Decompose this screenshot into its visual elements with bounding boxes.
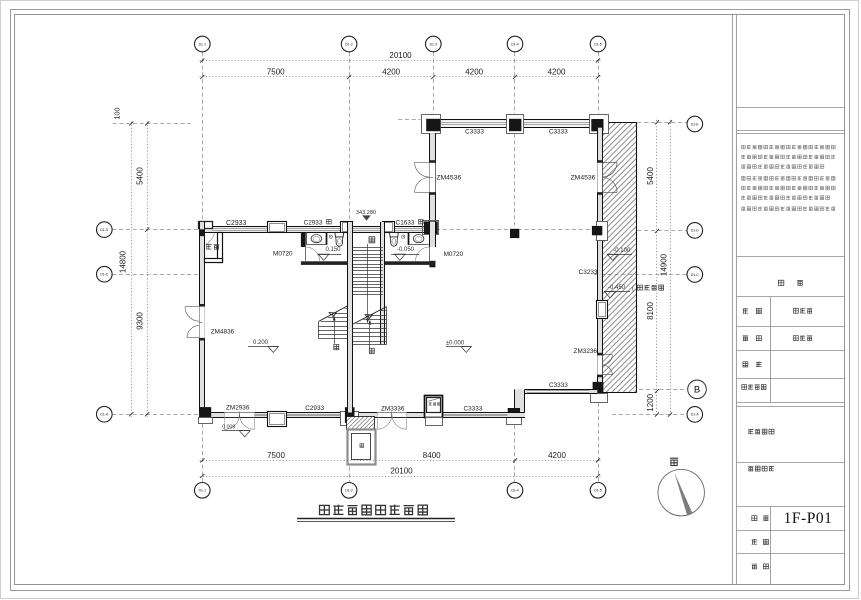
left wall right wing [429, 133, 435, 222]
stair break line right [352, 307, 386, 325]
title block row lines [737, 108, 846, 585]
svg-text:7500: 7500 [267, 68, 285, 77]
stair label shang left [334, 344, 339, 349]
column interior at D1-4 D [510, 229, 519, 238]
title block label hui-qian [778, 280, 803, 285]
column bottom central wall [341, 407, 359, 425]
elevation mark -0.100 [607, 248, 632, 260]
svg-text:9300: 9300 [136, 312, 145, 330]
svg-text:D1-5: D1-5 [594, 489, 601, 493]
column right wall bottom corner [591, 382, 608, 403]
grid line A horizontal left [112, 414, 199, 416]
grid line D1-4 vertical interior [514, 134, 516, 226]
door ZM2936 swing [225, 412, 255, 430]
water meter well lower trim [426, 418, 443, 426]
grid line D1-1 vertical bottom [202, 424, 204, 483]
grid line D1-2 vertical top [349, 52, 351, 221]
svg-text:14800: 14800 [119, 250, 128, 273]
window pier block 2 [340, 221, 353, 234]
stair upper flight treads [352, 248, 383, 295]
svg-text:D1-1: D1-1 [199, 489, 206, 493]
svg-text:0.150: 0.150 [325, 247, 341, 253]
svg-text:C1633: C1633 [396, 219, 415, 226]
window label C1633jia [396, 219, 424, 226]
stair top elevation 343.280 [356, 210, 376, 221]
figure title lou-yi-ceng-yuan-shi-jian-zhu-tu [297, 505, 455, 522]
window label C3333 right [549, 129, 568, 136]
right bathroom bottom wall [385, 261, 435, 265]
door label ZM2936 [226, 404, 250, 411]
window pier block bottom C2933 [267, 411, 287, 427]
svg-text:ZM2936: ZM2936 [226, 404, 250, 411]
grid line D1-5 vertical bottom [598, 403, 600, 483]
svg-text:4200: 4200 [548, 451, 566, 460]
svg-text:-0.100: -0.100 [613, 248, 631, 254]
column D1-4 top [507, 115, 524, 134]
corner column bottom-left [199, 407, 213, 423]
svg-text:ZM3336: ZM3336 [381, 406, 405, 413]
title block disclaimer text [741, 145, 835, 211]
elevation mark 0.200 [248, 340, 279, 353]
left bathroom door M0720 [306, 247, 320, 261]
window label C2933 top [226, 220, 246, 227]
grid line D1-2 vertical bottom [349, 426, 351, 483]
left bathroom toilet [335, 233, 344, 247]
fume room walls [200, 229, 223, 262]
axis bubble D1-A right [687, 407, 703, 423]
axis bubble D1-C right [687, 267, 703, 283]
svg-text:8100: 8100 [646, 302, 655, 320]
corner block at D1-3 base [423, 221, 439, 235]
right dimension chain 14900 [659, 120, 672, 417]
left bathroom floor drain [329, 235, 332, 238]
fume room label you-yan [206, 244, 219, 249]
svg-text:1200: 1200 [646, 393, 655, 411]
axis bubble D1-A left [97, 406, 113, 422]
bottom wall band left wing [199, 413, 525, 418]
door threshold mark 0.009 [222, 425, 250, 437]
axis bubble D1-5 top [590, 36, 606, 52]
stair label xia [369, 237, 375, 243]
svg-text:1F-P01: 1F-P01 [784, 510, 833, 527]
svg-text:C3333: C3333 [549, 382, 568, 389]
svg-text:100: 100 [113, 108, 122, 120]
svg-text:14900: 14900 [659, 253, 668, 276]
svg-text:4200: 4200 [548, 68, 566, 77]
stair left lower flight treads [319, 305, 348, 339]
svg-text:D1-4: D1-4 [511, 42, 518, 46]
compass label bei [670, 458, 678, 465]
left bathroom sink [307, 232, 327, 245]
window pier block 1 [267, 221, 287, 233]
grid line D1-3 vertical top [433, 52, 435, 114]
title block ri-qi [752, 564, 769, 569]
title block row hui-tu [743, 335, 813, 340]
bottom overall dimension 20100 [200, 466, 601, 478]
left wall left wing [199, 222, 205, 417]
door label M0720 right [444, 251, 464, 258]
window label C2933 bottom [305, 405, 324, 412]
right dimension chain 5400-8100-1200 [646, 120, 659, 417]
hatched party wall right [602, 122, 636, 392]
window label C3333 bottom-left wing [463, 406, 482, 413]
door label ZM3336 [381, 406, 405, 413]
svg-text:C3233: C3233 [579, 269, 598, 276]
column right wall at D [592, 222, 608, 241]
title block row jia-fang-shen-ding [742, 384, 766, 389]
compass north arrow [658, 469, 704, 515]
svg-text:C2933: C2933 [304, 219, 323, 226]
left bathroom left wall [301, 232, 306, 247]
axis bubble D1-4 top [507, 36, 523, 52]
svg-text:ZM3236: ZM3236 [574, 348, 598, 355]
door label ZM3236 [574, 348, 598, 355]
chimney hatch [334, 417, 397, 430]
axis bubble D1-3 top [426, 36, 442, 52]
svg-text:D1-E: D1-E [691, 122, 699, 126]
svg-text:D1-4: D1-4 [511, 489, 518, 493]
svg-text:4200: 4200 [382, 68, 400, 77]
svg-text:ZM4536: ZM4536 [436, 175, 461, 182]
window C3233 block [596, 300, 608, 319]
svg-text:-0.050: -0.050 [397, 247, 415, 253]
chimney body [347, 430, 375, 465]
axis bubble D1-D left [97, 222, 113, 238]
grid line E horizontal right [637, 122, 687, 124]
door ZM4536 left swing [415, 162, 434, 192]
svg-text:0.009: 0.009 [222, 425, 235, 431]
elevation mark 0.150 [318, 247, 342, 260]
svg-text:M0720: M0720 [273, 251, 293, 258]
right bathroom sink [408, 232, 428, 245]
svg-text:M0720: M0720 [444, 251, 464, 258]
bottom wall right wing [525, 389, 597, 393]
column step corner [507, 408, 522, 425]
svg-text:343.280: 343.280 [356, 210, 376, 216]
column D1-5 top [590, 115, 609, 134]
title block row jiao-he [743, 362, 762, 367]
grid line D1-4 vertical bottom [514, 425, 516, 483]
svg-text:D1-A: D1-A [691, 413, 699, 417]
top wall band left wing [199, 226, 437, 232]
svg-text:-0.450: -0.450 [608, 285, 626, 291]
axis bubble D1-1 top [195, 36, 211, 52]
svg-text:D1-C: D1-C [691, 273, 699, 277]
title block bi-li [752, 539, 769, 544]
column D1-3 top [422, 115, 441, 134]
svg-text:C2933: C2933 [305, 405, 324, 412]
title block tu-hao [752, 516, 769, 521]
grid line E horizontal left stub [113, 120, 421, 124]
left bathroom bottom wall [301, 261, 348, 265]
grid line B horizontal right [639, 389, 687, 391]
title block sheet number 1F-P01 [784, 510, 833, 527]
bottom chain dimensions [200, 451, 601, 463]
door label M0720 left [273, 251, 293, 258]
svg-text:D1-1: D1-1 [199, 42, 206, 46]
door ZM4836 swing [185, 307, 203, 338]
elevation mark -0.450 [604, 285, 664, 298]
svg-text:0.200: 0.200 [253, 340, 269, 346]
stair label shang right [369, 348, 374, 353]
grid line D horizontal right [637, 230, 687, 232]
window label C3233 [579, 269, 598, 276]
svg-text:D1-D: D1-D [100, 228, 108, 232]
svg-text:D1-A: D1-A [100, 413, 108, 417]
fume room flue arc [206, 233, 215, 245]
svg-text:5400: 5400 [136, 167, 145, 185]
right wall right wing [597, 128, 602, 390]
top wall band right wing [421, 119, 602, 127]
svg-text:C3333: C3333 [463, 406, 482, 413]
window label C3333 left [465, 129, 484, 136]
door ZM3236 swing [602, 355, 612, 376]
window label C3333 bottom [549, 382, 568, 389]
grid line D horizontal interior [436, 229, 592, 231]
stair shaft right wall [380, 222, 385, 345]
axis bubble D1-2 bottom [341, 483, 357, 499]
elevation mark +-0.000 [446, 340, 472, 352]
door label ZM4536 right [571, 175, 596, 182]
window pier block 3 [382, 221, 395, 234]
svg-text:5400: 5400 [646, 167, 655, 185]
right bathroom door M0720 [416, 247, 430, 261]
elevation mark -0.050 [391, 247, 420, 260]
axis bubble B right [688, 380, 707, 399]
axis bubble D1-1 bottom [195, 483, 211, 499]
svg-text:20100: 20100 [390, 466, 413, 475]
svg-text:ZM4836: ZM4836 [211, 328, 235, 335]
title block row she-ji [743, 308, 813, 313]
door label ZM4836 [211, 328, 235, 335]
title block tu-bie-xiang-mu [748, 466, 774, 471]
svg-text:7500: 7500 [267, 451, 285, 460]
svg-text:C3333: C3333 [465, 129, 484, 136]
title block gong-cheng-di-zhi [748, 429, 774, 434]
corner block top-left [199, 222, 213, 229]
right bathroom floor drain [402, 235, 405, 238]
title block column borders [733, 15, 737, 585]
stair right lower flight treads [352, 307, 386, 345]
top chain dimensions [200, 68, 601, 80]
svg-text:D1-2: D1-2 [345, 42, 352, 46]
svg-text:±0.000: ±0.000 [446, 340, 465, 346]
step wall [515, 389, 526, 412]
grid line A horizontal right [612, 414, 687, 416]
axis bubble D1-E right [687, 116, 703, 132]
stair down arrow [366, 244, 369, 324]
axis bubble D1-2 top [341, 36, 357, 52]
grid line D1-1 vertical top [202, 52, 204, 222]
stair up arrow left [333, 316, 336, 345]
svg-text:4200: 4200 [465, 68, 483, 77]
right bathroom right wall [429, 222, 435, 267]
right bathroom toilet [390, 233, 399, 247]
stair break line left [318, 306, 347, 322]
grid line D1-4 vertical top [514, 52, 516, 114]
svg-text:C2933: C2933 [226, 220, 246, 227]
svg-text:B: B [694, 385, 700, 396]
svg-text:D1-C: D1-C [100, 273, 108, 277]
grid line D horizontal left [112, 229, 199, 231]
stair up arrow right [369, 320, 372, 350]
svg-text:8400: 8400 [423, 451, 441, 460]
svg-text:20100: 20100 [389, 51, 412, 60]
grid line D1-5 vertical top [598, 52, 600, 114]
svg-text:C3333: C3333 [549, 129, 568, 136]
water meter well box [425, 396, 443, 418]
svg-text:D1-D: D1-D [691, 229, 699, 233]
axis bubble D1-C left [97, 266, 113, 282]
left dimension chain 100-5400-9300 [113, 108, 150, 417]
door label ZM4536 left [436, 175, 461, 182]
door ZM3336 swing [377, 412, 406, 430]
axis bubble D1-5 bottom [590, 483, 606, 499]
svg-text:D1-3: D1-3 [430, 42, 437, 46]
grid line C horizontal right [594, 274, 687, 276]
axis bubble D1-4 bottom [507, 483, 523, 499]
axis bubble D1-D right [687, 223, 703, 239]
grid line C horizontal left [112, 274, 199, 276]
window label C2933jia [304, 219, 332, 226]
door ZM4536 right swing [602, 162, 617, 192]
svg-text:ZM4536: ZM4536 [571, 175, 596, 182]
top overall dimension 20100 [200, 51, 601, 62]
svg-text:D1-5: D1-5 [594, 42, 601, 46]
svg-text:D1-2: D1-2 [345, 489, 352, 493]
central party wall [348, 222, 353, 413]
left dimension chain 14800 [119, 121, 134, 416]
